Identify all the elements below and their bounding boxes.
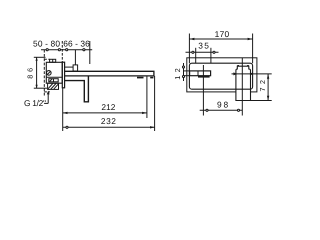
- svg-text:35: 35: [198, 41, 209, 51]
- svg-text:G 1/2": G 1/2": [24, 98, 46, 108]
- svg-text:50 - 80: 50 - 80: [33, 38, 60, 48]
- svg-text:98: 98: [217, 100, 229, 110]
- svg-text:66 - 36: 66 - 36: [63, 38, 90, 48]
- svg-text:170: 170: [215, 29, 230, 39]
- svg-text:212: 212: [101, 102, 115, 112]
- svg-text:232: 232: [101, 116, 116, 126]
